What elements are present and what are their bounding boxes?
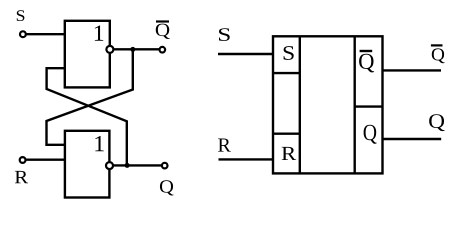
label Q (left diagram output) [160, 180, 174, 195]
wire NOT-Q output (right diagram) [383, 69, 442, 71]
label R (left diagram input) [15, 171, 28, 183]
inversion bubble U2 [106, 162, 113, 169]
divider bottom of S cell [273, 72, 300, 74]
junction node on NOT-Q wire [130, 47, 135, 52]
label S (inside block) [284, 46, 294, 60]
label Q (right diagram output) [429, 114, 444, 131]
wire Q output (right diagram) [383, 138, 442, 140]
divider between NOT-Q and Q cells [355, 105, 383, 107]
right diagram: SR latch block outer box [273, 36, 383, 173]
label NOT-Q (Q glyph) [156, 24, 170, 39]
inner vertical (right column left edge) [354, 36, 356, 173]
label R (inside block) [282, 147, 297, 160]
label NOT-Q inside block (Q glyph) [359, 54, 374, 73]
wire S input to gate U1 [26, 33, 65, 35]
label NOT-Q inside block (overbar) [360, 50, 373, 52]
label S (left diagram input) [17, 10, 25, 21]
wire feedback from U2 output up to U1 lower input [47, 68, 127, 165]
label 1 (U2) [95, 136, 103, 151]
terminal R [20, 157, 26, 163]
label R (right diagram input) [218, 139, 231, 152]
inner vertical (left column right edge) [299, 36, 301, 173]
label NOT-Q (overbar) [156, 20, 169, 22]
terminal Q output [162, 163, 168, 169]
label 1 (U1) [95, 26, 103, 41]
inversion bubble U1 [106, 46, 113, 53]
wire U2 output to Q terminal [114, 164, 162, 166]
wire R input to gate U2 [26, 158, 65, 160]
terminal S [20, 31, 26, 37]
junction node on Q wire [125, 163, 130, 168]
wire feedback from U1 output down to U2 upper input [47, 49, 133, 144]
gate U2 (IEC inverter box) [65, 131, 110, 198]
wire S input (right diagram) [218, 53, 273, 55]
label NOT-Q right diagram output (Q glyph) [432, 48, 445, 63]
gate U1 (IEC inverter box) [65, 21, 110, 88]
label Q (inside block) [364, 125, 377, 144]
label S (right diagram input) [219, 28, 230, 41]
label NOT-Q right diagram output (overbar) [431, 44, 443, 46]
divider top of R cell [273, 132, 300, 134]
wire R input (right diagram) [219, 158, 274, 160]
terminal NOT-Q output [160, 47, 166, 53]
wire U1 output to NOT-Q terminal [114, 48, 159, 50]
